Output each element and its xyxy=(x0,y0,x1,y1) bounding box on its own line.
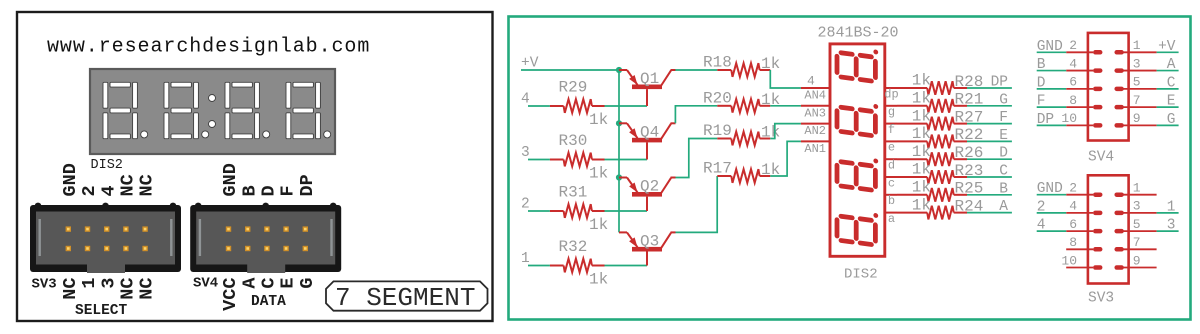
svg-text:1: 1 xyxy=(1133,181,1141,196)
svg-text:1k: 1k xyxy=(912,196,931,214)
wire to SV3 pin 4 xyxy=(1037,212,1067,214)
wire net 2 to transistor base xyxy=(605,210,648,212)
svg-text:B: B xyxy=(999,181,1008,197)
SV3 pin 1 xyxy=(1117,181,1157,196)
junction at Q2 emitter xyxy=(616,174,622,180)
svg-text:3: 3 xyxy=(521,145,530,161)
board display digit 2 xyxy=(164,82,209,138)
board display digit 3 xyxy=(225,82,270,138)
svg-text:c: c xyxy=(888,176,895,190)
svg-text:f: f xyxy=(888,123,895,137)
wire net 4 to transistor base xyxy=(605,105,648,107)
svg-text:AN2: AN2 xyxy=(804,124,826,138)
svg-text:NC: NC xyxy=(118,174,139,196)
resistor R25 1k xyxy=(897,179,983,202)
7 SEGMENT title box xyxy=(326,281,488,310)
schematic display digit 3 xyxy=(837,153,878,190)
svg-text:1k: 1k xyxy=(589,271,608,289)
svg-text:R30: R30 xyxy=(559,132,588,150)
svg-text:2841BS-20: 2841BS-20 xyxy=(818,25,899,42)
display pin AN2 xyxy=(801,123,830,125)
svg-text:C: C xyxy=(999,164,1008,180)
wire b segment to net B xyxy=(967,194,1012,196)
svg-text:a: a xyxy=(888,212,895,226)
SV4 pin 5 xyxy=(1117,75,1176,92)
wire +V rail vertical xyxy=(618,70,620,232)
resistor R30 1k xyxy=(550,132,608,183)
resistor R26 1k xyxy=(897,143,983,166)
schematic display digit 2 xyxy=(837,99,878,136)
SV3 pin field (2x5 contacts) xyxy=(66,226,148,251)
svg-text:Q4: Q4 xyxy=(640,123,659,141)
resistor R17 1k xyxy=(703,160,780,183)
svg-text:F: F xyxy=(999,110,1008,126)
resistor R24 1k xyxy=(897,196,983,219)
svg-text:R18: R18 xyxy=(703,54,732,72)
svg-text:A: A xyxy=(999,199,1008,215)
svg-text:2: 2 xyxy=(79,185,100,196)
svg-text:G: G xyxy=(297,278,318,289)
svg-text:1: 1 xyxy=(521,251,530,267)
svg-text:DP: DP xyxy=(297,174,318,196)
display pin g xyxy=(885,105,897,107)
svg-text:G: G xyxy=(999,92,1008,108)
connector SV3 (IDC box header) xyxy=(30,203,181,273)
svg-text:3: 3 xyxy=(1133,199,1141,214)
svg-text:C: C xyxy=(259,278,280,289)
SV4 pin 9 xyxy=(1117,111,1176,128)
wire from SV3 pin 3 xyxy=(1157,212,1179,214)
transistor Q4 (PNP) xyxy=(619,123,676,159)
svg-text:R19: R19 xyxy=(703,122,732,140)
wire a segment to net A xyxy=(967,212,1012,214)
wire net 1 left segment xyxy=(528,265,550,267)
board outline (left panel frame) xyxy=(17,12,493,321)
svg-text:1k: 1k xyxy=(912,179,931,197)
svg-text:4: 4 xyxy=(1069,56,1077,71)
svg-text:2: 2 xyxy=(1069,181,1077,196)
schematic frame (green border) xyxy=(509,17,1191,320)
connector SV4 (IDC box header) xyxy=(190,203,341,273)
transistor Q2 (PNP) xyxy=(619,178,676,212)
svg-text:D: D xyxy=(259,185,280,196)
wire from SV3 pin 5 xyxy=(1157,230,1179,232)
svg-text:Q2: Q2 xyxy=(640,178,659,196)
svg-text:D: D xyxy=(999,146,1008,162)
display pin AN1 xyxy=(801,140,830,142)
svg-text:SELECT: SELECT xyxy=(75,303,128,319)
transistor Q1 (PNP) xyxy=(619,70,676,106)
wire R19 to display pin AN2 xyxy=(770,124,801,139)
resistor R20 1k xyxy=(703,89,780,112)
SV4 pin 2 xyxy=(1037,38,1101,55)
svg-text:5: 5 xyxy=(1133,217,1141,232)
svg-text:6: 6 xyxy=(1069,75,1077,90)
svg-text:6: 6 xyxy=(1069,217,1077,232)
svg-text:R29: R29 xyxy=(559,79,588,97)
svg-text:7: 7 xyxy=(1133,93,1141,108)
SV3 pin 7 xyxy=(1117,235,1157,250)
schematic display digit 4 xyxy=(837,208,878,245)
SV3 pin 5 xyxy=(1117,217,1176,234)
SV3 pin 8 xyxy=(1066,235,1100,250)
svg-text:2: 2 xyxy=(521,197,530,213)
svg-text:NC: NC xyxy=(60,278,81,300)
SV3 pin 10 xyxy=(1061,253,1100,268)
svg-text:d: d xyxy=(888,159,895,173)
SV3 pin 9 xyxy=(1117,253,1157,268)
svg-text:4: 4 xyxy=(1069,199,1077,214)
svg-text:4: 4 xyxy=(521,92,530,108)
display pin f xyxy=(885,123,897,125)
resistor R27 1k xyxy=(897,107,983,130)
svg-text:A: A xyxy=(239,277,260,289)
svg-text:AN3: AN3 xyxy=(804,106,826,120)
svg-text:1k: 1k xyxy=(912,72,931,90)
svg-text:DIS2: DIS2 xyxy=(844,267,878,283)
svg-text:1: 1 xyxy=(79,278,100,289)
SV4 pin 1 xyxy=(1117,38,1176,55)
svg-text:8: 8 xyxy=(1069,93,1077,108)
wire to SV4 pin 2 xyxy=(1037,51,1067,53)
wire Q2 collector to R19 xyxy=(676,139,718,178)
wire Q3 collector to R17 xyxy=(676,176,718,232)
svg-text:4: 4 xyxy=(807,74,815,89)
svg-text:AN1: AN1 xyxy=(804,142,826,156)
svg-text:3: 3 xyxy=(1133,56,1141,71)
svg-text:Q1: Q1 xyxy=(640,70,659,88)
display pin d xyxy=(885,158,897,160)
transistor Q3 (PNP) xyxy=(619,232,676,265)
wire g segment to net G xyxy=(967,105,1012,107)
junction at Q1 emitter xyxy=(616,67,622,73)
svg-text:1k: 1k xyxy=(589,111,608,129)
SV4 pin 6 xyxy=(1037,75,1101,92)
svg-text:B: B xyxy=(239,185,260,196)
svg-text:E: E xyxy=(278,278,299,289)
wire +V rail horizontal xyxy=(521,69,619,71)
svg-text:R17: R17 xyxy=(703,160,732,178)
svg-text:NC: NC xyxy=(137,174,158,196)
svg-text:DP: DP xyxy=(991,75,1008,91)
svg-text:R31: R31 xyxy=(559,184,588,202)
connector SV4 (schematic) xyxy=(1088,33,1129,141)
wire net 1 to transistor base xyxy=(605,265,648,267)
svg-text:e: e xyxy=(888,141,895,155)
wire to SV3 pin 2 xyxy=(1037,194,1067,196)
svg-text:Q3: Q3 xyxy=(640,232,659,250)
wire to SV4 pin 8 xyxy=(1037,106,1067,108)
wire d segment to net D xyxy=(967,158,1012,160)
svg-text:SV4: SV4 xyxy=(1088,150,1114,166)
SV4 pin field (2x5 contacts) xyxy=(226,226,308,251)
svg-text:10: 10 xyxy=(1061,253,1077,268)
wire net 4 left segment xyxy=(528,105,550,107)
connector SV3 (schematic) xyxy=(1088,175,1129,283)
resistor R18 1k xyxy=(703,54,780,77)
wire from SV4 pin 9 xyxy=(1157,124,1179,126)
SV4 pin 8 xyxy=(1037,93,1101,110)
svg-text:SV4: SV4 xyxy=(193,276,218,292)
svg-text:R32: R32 xyxy=(559,238,588,256)
svg-text:1k: 1k xyxy=(912,143,931,161)
7-segment display module DIS2 (board) xyxy=(90,69,335,154)
svg-text:7: 7 xyxy=(1133,235,1141,250)
svg-text:9: 9 xyxy=(1133,111,1141,126)
SV4 pin 4 xyxy=(1037,56,1101,73)
wire to SV4 pin 4 xyxy=(1037,70,1067,72)
board display digit 4 xyxy=(286,82,331,138)
wire Q4 collector to R20 xyxy=(675,106,717,124)
display pin AN4 xyxy=(801,87,830,89)
wire R17 to display pin AN1 xyxy=(770,141,801,176)
SV3 pin 3 xyxy=(1117,199,1176,216)
wire c segment to net C xyxy=(967,176,1012,178)
display pin b xyxy=(885,194,897,196)
board display digit 1 xyxy=(103,82,148,138)
svg-text:5: 5 xyxy=(1133,75,1141,90)
svg-text:dp: dp xyxy=(884,87,898,101)
display pin c xyxy=(885,176,897,178)
wire e segment to net E xyxy=(967,140,1012,142)
SV3 pin 4 xyxy=(1037,199,1101,216)
wire to SV4 pin 10 xyxy=(1037,124,1067,126)
wire to SV4 pin 6 xyxy=(1037,88,1067,90)
wire from SV4 pin 5 xyxy=(1157,88,1179,90)
display pin AN3 xyxy=(801,105,830,107)
resistor R21 1k xyxy=(897,90,983,113)
svg-text:VCC: VCC xyxy=(220,278,241,311)
wire Q1 collector to R18 xyxy=(675,69,717,71)
svg-text:NC: NC xyxy=(118,278,139,300)
wire from SV4 pin 7 xyxy=(1157,106,1179,108)
svg-text:F: F xyxy=(278,185,299,196)
svg-text:2: 2 xyxy=(1069,38,1077,53)
SV4 pin 3 xyxy=(1117,56,1176,73)
svg-text:1k: 1k xyxy=(912,107,931,125)
svg-text:1: 1 xyxy=(1133,38,1141,53)
wire net 3 to transistor base xyxy=(605,159,648,161)
SV4 pin 7 xyxy=(1117,93,1176,110)
svg-text:www.researchdesignlab.com: www.researchdesignlab.com xyxy=(47,36,370,59)
svg-text:g: g xyxy=(888,105,895,119)
SV3 pin 6 xyxy=(1037,217,1101,234)
svg-text:SV3: SV3 xyxy=(1088,291,1114,307)
display pin e xyxy=(885,140,897,142)
svg-text:SV3: SV3 xyxy=(32,277,57,293)
resistor R31 1k xyxy=(550,184,608,235)
svg-text:R20: R20 xyxy=(703,89,732,107)
wire dp segment to net DP xyxy=(967,87,1012,89)
svg-text:1k: 1k xyxy=(589,216,608,234)
display pin dp xyxy=(885,87,897,89)
SV4 pin 10 xyxy=(1037,111,1101,128)
board display colon dots xyxy=(209,95,216,128)
resistor R22 1k xyxy=(897,125,983,148)
wire net 3 left segment xyxy=(528,159,550,161)
resistor R29 1k xyxy=(550,79,608,130)
resistor R28 1k xyxy=(897,72,983,95)
svg-text:3: 3 xyxy=(98,278,119,289)
svg-text:7 SEGMENT: 7 SEGMENT xyxy=(335,283,475,313)
resistor R32 1k xyxy=(550,238,608,289)
wire from SV4 pin 3 xyxy=(1157,70,1179,72)
SV3 pin 2 xyxy=(1037,181,1101,198)
wire f segment to net F xyxy=(967,123,1012,125)
svg-text:+V: +V xyxy=(521,56,539,72)
svg-text:1k: 1k xyxy=(912,161,931,179)
svg-text:DATA: DATA xyxy=(251,294,286,310)
wire R20 to display pin AN3 xyxy=(770,105,801,107)
svg-text:1k: 1k xyxy=(589,165,608,183)
schematic display digit 1 xyxy=(837,44,878,81)
svg-text:AN4: AN4 xyxy=(804,89,826,103)
wire net 2 left segment xyxy=(528,210,550,212)
svg-text:GND: GND xyxy=(220,163,241,196)
display pin a xyxy=(885,212,897,214)
svg-text:DIS2: DIS2 xyxy=(91,158,123,173)
svg-text:1k: 1k xyxy=(912,90,931,108)
resistor R19 1k xyxy=(703,122,780,145)
resistor R23 1k xyxy=(897,161,983,184)
svg-text:b: b xyxy=(888,194,895,208)
svg-text:E: E xyxy=(999,128,1008,144)
junction at Q4 emitter xyxy=(616,120,622,126)
svg-text:4: 4 xyxy=(98,185,119,196)
wire from SV4 pin 1 xyxy=(1157,51,1179,53)
svg-text:1k: 1k xyxy=(912,125,931,143)
svg-text:8: 8 xyxy=(1069,235,1077,250)
svg-text:9: 9 xyxy=(1133,253,1141,268)
wire to SV3 pin 6 xyxy=(1037,230,1067,232)
wire R18 to display pin AN4 xyxy=(770,70,801,88)
svg-text:NC: NC xyxy=(137,278,158,300)
svg-text:GND: GND xyxy=(60,163,81,196)
svg-text:10: 10 xyxy=(1061,111,1077,126)
